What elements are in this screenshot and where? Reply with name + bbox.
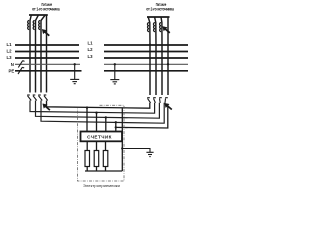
wire L3 bus left <box>15 57 79 59</box>
cursor arrow A1 <box>42 29 49 35</box>
wire ground drop left <box>74 64 76 79</box>
breaker coil QF2.3 <box>160 23 162 32</box>
wire L3 bus right <box>104 57 188 59</box>
load resistor R2 <box>94 151 99 167</box>
switch S1.2 <box>33 95 37 101</box>
load resistor R1 <box>85 151 90 167</box>
wire PE branch bottom <box>122 149 150 153</box>
svg-text:L2: L2 <box>87 47 93 52</box>
svg-text:от 2-го источника: от 2-го источника <box>146 6 174 12</box>
node N ground tap right <box>114 63 116 65</box>
switch S2.2 <box>153 98 156 103</box>
wire meter drop 1 <box>86 108 88 132</box>
svg-text:L3: L3 <box>6 55 12 60</box>
svg-text:от 1-го источника: от 1-го источника <box>32 6 60 12</box>
ground symbol right <box>110 80 119 84</box>
wire N bus right <box>104 63 188 65</box>
svg-text:L3: L3 <box>87 54 93 59</box>
svg-text:Электроприемники: Электроприемники <box>83 183 120 188</box>
cursor arrow A4 <box>165 103 172 109</box>
node PE tap bottom <box>121 147 123 149</box>
svg-text:L1: L1 <box>87 41 93 46</box>
node N ground tap left <box>74 63 76 65</box>
switch S2.3 <box>159 98 162 103</box>
wire meter drop 3 <box>105 118 107 132</box>
label source1 text <box>32 2 60 11</box>
wire source1 feeder verticals <box>30 15 47 93</box>
node rail5 junction <box>115 126 117 128</box>
source2 top bus bar <box>147 16 170 18</box>
enclosure dash-dot box <box>78 105 125 181</box>
wire source2 feeder verticals <box>148 17 168 95</box>
wire N descend from rail1 <box>121 108 123 171</box>
svg-text:N: N <box>11 62 14 67</box>
wire rail3 L2 <box>36 101 160 119</box>
switch S1.4 <box>44 95 48 101</box>
breaker coil QF2.1 <box>147 23 149 32</box>
node meter tap 3 <box>105 116 107 118</box>
wire rail1 N from source1 <box>47 101 150 109</box>
PE conductor break slash <box>18 67 24 74</box>
wire PE bus left <box>15 70 82 72</box>
ground symbol bottom right <box>146 152 153 156</box>
wire rail5 N from source2 <box>116 104 168 128</box>
svg-text:СЧЕТЧИК: СЧЕТЧИК <box>87 135 112 140</box>
breaker coil QF2.2 <box>153 23 155 32</box>
svg-text:L2: L2 <box>6 49 12 54</box>
wire L2 bus left <box>15 51 79 53</box>
wire load drop 2 <box>96 141 98 150</box>
switch S2.1 <box>147 98 150 103</box>
label source2 text <box>146 2 174 11</box>
wire load drop 3 <box>105 141 107 150</box>
load resistor R3 <box>103 151 108 167</box>
wire L1 bus right <box>104 44 188 46</box>
N conductor break slash <box>18 61 24 68</box>
wire N bus left <box>15 63 80 65</box>
wire meter drop 4 <box>115 122 117 131</box>
ground symbol left <box>70 79 79 83</box>
wire rail4 L3 <box>41 101 164 124</box>
wire load return 3 <box>105 167 107 172</box>
meter box <box>81 132 123 142</box>
wire meter drop 2 <box>96 113 98 132</box>
svg-text:L1: L1 <box>6 42 12 47</box>
breaker coil QF1.1 <box>28 21 30 30</box>
node meter tap 2 <box>95 112 97 114</box>
node L1 source2 junction <box>149 44 151 46</box>
node meter tap 1 <box>86 106 88 108</box>
source1 top bus bar <box>29 14 48 16</box>
breaker coil QF1.2 <box>33 21 35 30</box>
wire L1 bus left <box>15 44 79 46</box>
wire load return 2 <box>96 167 98 172</box>
wire load drop 1 <box>86 141 88 150</box>
breaker coil QF1.3 <box>39 21 41 30</box>
svg-text:PE: PE <box>8 68 14 73</box>
node meter tap 4 <box>115 121 117 123</box>
cursor arrow A3 <box>43 104 50 110</box>
switch S1.3 <box>38 95 42 101</box>
cursor arrow A2 <box>163 27 170 33</box>
switch S2.4 <box>165 98 168 103</box>
node N source2 junction <box>167 63 169 65</box>
wire rail2 L1 <box>30 101 155 114</box>
switch S1.1 <box>27 95 31 101</box>
wire neutral bottom bus <box>85 170 122 172</box>
wire PE bus right <box>104 70 188 72</box>
wire ground drop right <box>114 64 116 79</box>
wire load return 1 <box>86 167 88 172</box>
wire L2 bus right <box>104 51 188 53</box>
